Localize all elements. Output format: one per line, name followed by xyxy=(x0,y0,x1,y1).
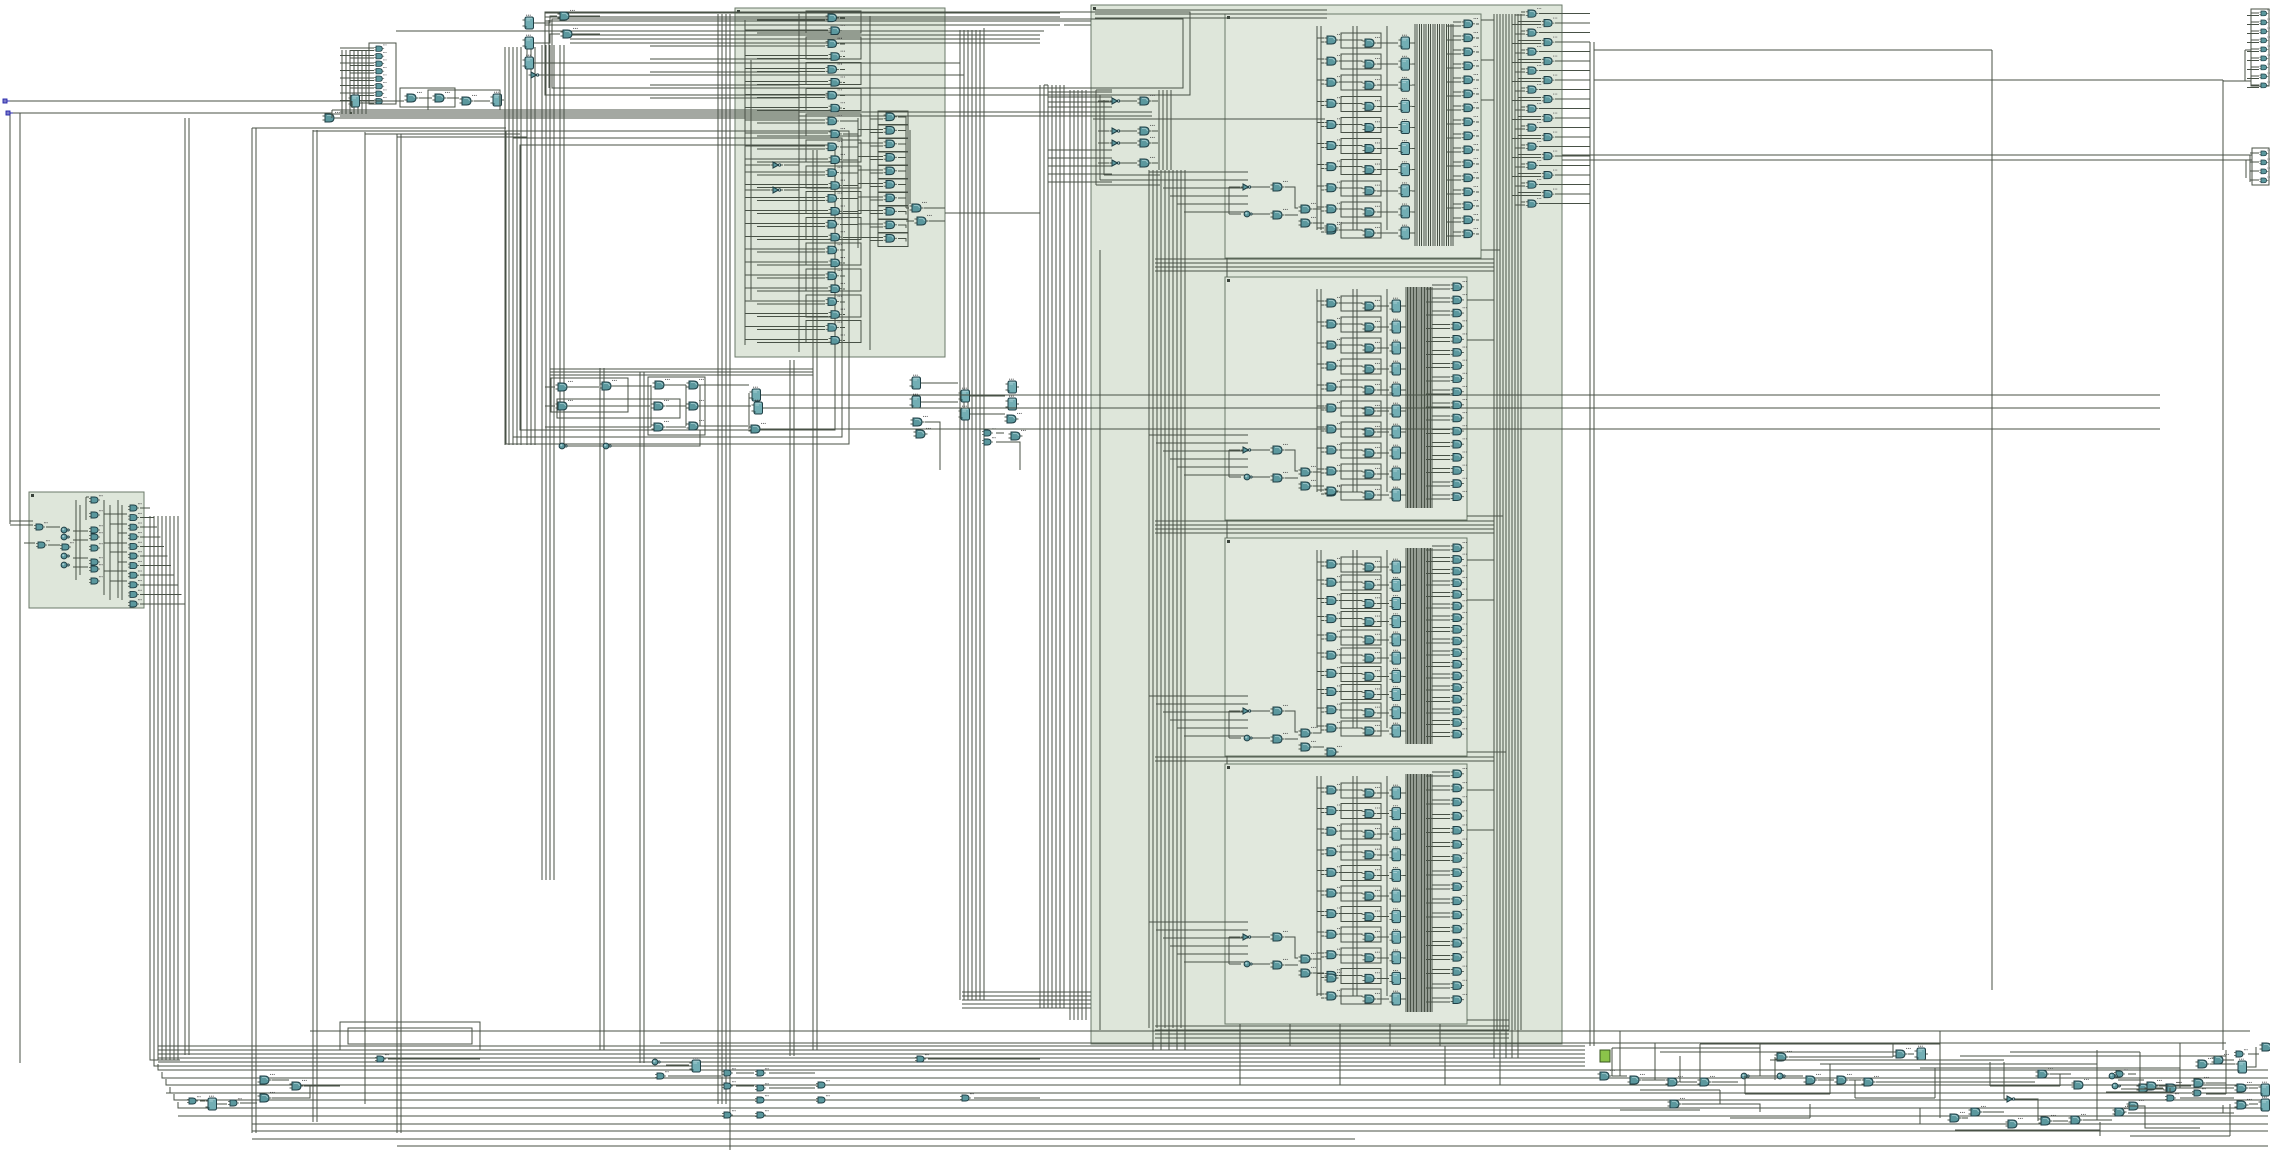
flipflop FM1 xyxy=(910,375,924,389)
wire blk2 cfeed 5 xyxy=(1426,351,1465,355)
wire blk2 cfeed 15 xyxy=(1426,482,1465,486)
wire stubs under core mid xyxy=(1240,1024,1440,1046)
flipflop FM4 xyxy=(959,406,973,420)
wire blk4 cfeed 12 xyxy=(1426,941,1465,945)
wire bl links xyxy=(200,1059,1040,1104)
or gate B1C13 xyxy=(1462,200,1478,210)
wire net v252 xyxy=(252,128,256,1133)
wire p3 out 5 xyxy=(140,555,168,557)
and gate BR8 xyxy=(1835,1074,1852,1084)
wire net core out h213 xyxy=(945,212,1040,214)
wire blk4 cfeed 1 xyxy=(1426,786,1465,790)
and gate FR4 xyxy=(2259,46,2270,52)
wire dec in 24 xyxy=(745,327,845,330)
wire fr stub 6 xyxy=(2247,67,2259,70)
and gate B2A5 xyxy=(1325,402,1342,412)
wire net strip top frame xyxy=(310,1030,2250,1032)
wire bundle blk3 matrix xyxy=(1406,548,1432,744)
wire blk3 cfeed 4 xyxy=(1426,593,1465,597)
wire dor link 1 xyxy=(858,125,908,139)
wire blk2 rowbox 4 xyxy=(1341,380,1381,395)
wire loop mid rect 1 xyxy=(506,131,849,444)
wire blk1 rowbox 0 xyxy=(1341,33,1381,48)
flipflop B3F6 xyxy=(1390,668,1404,682)
and gate B2B5 xyxy=(1363,405,1380,415)
inverter B3L0 xyxy=(1241,708,1254,714)
wire rout a feed 3 xyxy=(1515,69,1590,72)
wire dec box 24 xyxy=(806,321,861,343)
wire fr stub 2 xyxy=(2247,31,2259,34)
and gate BL1 xyxy=(187,1096,201,1104)
or gate DOR8 xyxy=(884,219,900,229)
and gate B1A3 xyxy=(1325,97,1342,107)
and gate B3B3 xyxy=(1363,616,1380,626)
wire bus under blk1 xyxy=(1155,259,1494,271)
wire net top joins2 xyxy=(580,12,1091,85)
wire p3 out 0 xyxy=(140,507,150,509)
wire dec in 5 xyxy=(745,82,845,85)
and gate B2B9 xyxy=(1363,489,1380,499)
wire blk4 rowbox 4 xyxy=(1341,865,1381,880)
and gate B3B1 xyxy=(1363,579,1380,589)
wire mid col links xyxy=(923,383,1020,470)
wire loop mid cluster box1 xyxy=(551,378,628,412)
and gate B4L1 xyxy=(1271,931,1288,941)
or gate B4C3 xyxy=(1451,810,1467,820)
round buffer MB1 xyxy=(559,443,568,449)
or gate DOR7 xyxy=(884,205,900,215)
inverter B4L0 xyxy=(1241,934,1254,940)
and gate B2B7 xyxy=(1363,447,1380,457)
and gate DOUT1 xyxy=(910,202,927,212)
wire blk1 rowbox 2 xyxy=(1341,75,1381,90)
wire rout b feed 5 xyxy=(1512,117,1590,120)
round buffer S7 xyxy=(61,562,70,568)
wire bus top inputs xyxy=(332,110,799,118)
wire blk3 rowbox 4 xyxy=(1341,630,1381,645)
wire dor link 5 xyxy=(858,179,908,193)
and gate DEC0 xyxy=(826,12,842,22)
wire dec box 16 xyxy=(806,217,861,239)
wire net mid h370 xyxy=(550,369,813,375)
wire corner left bundle 6 xyxy=(170,1087,200,1093)
wire blk2 cfeed 6 xyxy=(1426,364,1465,368)
and gate B1L2 xyxy=(1299,203,1316,213)
and gate DEC17 xyxy=(829,231,845,241)
wire fr stub 7 xyxy=(2247,76,2259,79)
and gate SM0 xyxy=(89,495,103,503)
and gate B4A6 xyxy=(1325,907,1342,917)
and gate B3B6 xyxy=(1363,670,1380,680)
and gate B1B0 xyxy=(1363,37,1380,47)
inverter CIV3 xyxy=(1110,160,1123,166)
and gate B2A9 xyxy=(1325,486,1342,496)
and gate MC6 xyxy=(652,400,669,410)
wire blk1 cfeed 6 xyxy=(1447,106,1479,110)
and gate FR2 xyxy=(2259,28,2270,34)
or gate B4C1 xyxy=(1451,782,1467,792)
sub-module panel BLK1 xyxy=(1225,14,1481,258)
wire dec in 11 xyxy=(745,159,858,162)
wire rout b feed 2 xyxy=(1512,60,1590,63)
wire blk1 feeders xyxy=(1317,26,1387,230)
wire rout b feed 6 xyxy=(1512,136,1590,139)
wire rout a feed 4 xyxy=(1515,88,1590,91)
flipflop B3F1 xyxy=(1390,577,1404,591)
wire dec in 3 xyxy=(745,56,845,59)
and gate B3A9 xyxy=(1325,722,1342,732)
and gate B3A8 xyxy=(1325,704,1342,714)
and gate DEC20 xyxy=(826,270,842,280)
and gate BR7 xyxy=(1804,1074,1821,1084)
wire dec box 4 xyxy=(806,63,861,85)
wire blk2 row 6 xyxy=(1317,427,1406,432)
wire blk1 cfeed 1 xyxy=(1447,36,1479,40)
or gate ROUTa1 xyxy=(1526,27,1542,36)
and gate BRT6 xyxy=(2165,1093,2179,1101)
and gate B4B8 xyxy=(1363,952,1380,962)
wire blk3 cfeed 15 xyxy=(1426,721,1465,725)
wire dec in 21 xyxy=(745,288,845,291)
and gate B3A7 xyxy=(1325,685,1342,695)
inverter B2L0 xyxy=(1241,447,1254,453)
wire blk3 row 6 xyxy=(1317,671,1406,676)
wire blk1 row 2 xyxy=(1317,80,1415,85)
flipflop B4F1 xyxy=(1390,805,1404,819)
wire blk3 row 2 xyxy=(1317,598,1406,603)
wire loop mid cluster box3 xyxy=(557,399,680,418)
inverter CIV0 xyxy=(1110,98,1123,104)
and gate BR28 xyxy=(2212,1054,2229,1064)
round buffer B3L3 xyxy=(1244,735,1253,741)
or gate B1C12 xyxy=(1462,186,1478,196)
and gate DEC10 xyxy=(826,141,842,151)
wire blk2 row 8 xyxy=(1317,469,1406,474)
wire p3 feed column xyxy=(86,497,127,581)
or gate SO8 xyxy=(128,580,142,588)
flipflop BLF1 xyxy=(206,1096,220,1110)
round buffer B1L3 xyxy=(1244,211,1253,217)
and gate SM7 xyxy=(89,576,103,584)
wire dec in 0 xyxy=(745,17,845,20)
and gate BR9 xyxy=(1862,1076,1879,1086)
or gate B3C15 xyxy=(1451,717,1467,727)
wire blk4 rowbox 5 xyxy=(1341,886,1381,901)
and gate BR15 xyxy=(1969,1106,1986,1116)
wire dec box 10 xyxy=(806,140,861,162)
wire box around input gate column xyxy=(369,43,396,104)
or gate ROUTa8 xyxy=(1526,160,1542,169)
and gate GM2 xyxy=(914,428,931,438)
wire corner left bundle 7 xyxy=(174,1094,204,1100)
and gate SM4 xyxy=(89,543,103,551)
flipflop B4F3 xyxy=(1390,846,1404,860)
wire blk4 row 2 xyxy=(1317,829,1406,834)
wire blk3 rowbox 0 xyxy=(1341,557,1381,572)
inverter B1L0 xyxy=(1241,184,1254,190)
flipflop MF1 xyxy=(750,387,764,401)
wire blk1 cfeed 7 xyxy=(1447,120,1479,124)
and gate B2L6 xyxy=(1325,485,1342,495)
wire net v313 xyxy=(313,130,317,1122)
flipflop B3F0 xyxy=(1390,559,1404,573)
or gate B2C15 xyxy=(1451,478,1467,488)
wire dec in 19 xyxy=(745,262,845,265)
wire blk3 rowbox 2 xyxy=(1341,593,1381,608)
or gate B2C3 xyxy=(1451,320,1467,330)
wire bus bottom spread xyxy=(166,1070,2268,1093)
or gate B1C7 xyxy=(1462,116,1478,126)
wire net left tall xyxy=(185,118,189,1055)
wire blk1 cfeed 5 xyxy=(1447,92,1479,96)
and gate B4B0 xyxy=(1363,787,1380,797)
and gate FR8 xyxy=(2259,82,2270,88)
and gate BL8 xyxy=(655,1071,669,1079)
flipflop MF2 xyxy=(752,400,766,414)
and gate FR3 xyxy=(2259,37,2270,43)
wire dor link 2 xyxy=(858,138,908,152)
wire p3 out 10 xyxy=(140,603,185,605)
and gate DEC21 xyxy=(829,283,845,293)
and gate BR29 xyxy=(2127,1100,2144,1110)
and gate B2A3 xyxy=(1325,360,1342,370)
wire blk3 rowbox 3 xyxy=(1341,612,1381,627)
wire inputs GIN6 xyxy=(340,93,374,96)
or gate B2C11 xyxy=(1451,425,1467,435)
and gate B1B3 xyxy=(1363,100,1380,110)
and gate GIN1 xyxy=(374,52,386,59)
and gate B2B6 xyxy=(1363,426,1380,436)
wire blk1 cfeed 15 xyxy=(1447,232,1479,236)
wire net v640 xyxy=(640,372,644,1063)
wire dec box 22 xyxy=(806,295,861,317)
wire civ link 1 xyxy=(1098,130,1158,132)
wire net vbus left outer xyxy=(9,113,11,524)
wire blk3 cfeed 10 xyxy=(1426,662,1465,666)
wire rout b feed 1 xyxy=(1512,41,1590,44)
wire blk4 rowbox 7 xyxy=(1341,927,1381,942)
wire blk3 rowbox 9 xyxy=(1341,721,1381,736)
and gate SM6 xyxy=(89,564,103,572)
or gate B2C16 xyxy=(1451,491,1467,501)
flipflop B1F9 xyxy=(1399,225,1413,239)
round buffer B2L3 xyxy=(1244,474,1253,480)
wire dec in 22 xyxy=(745,301,845,304)
and gate BRT4 xyxy=(2137,1082,2154,1092)
wire blk1 cfeed 8 xyxy=(1447,134,1479,138)
wire p3 input stubs xyxy=(10,521,35,543)
round buffer S3 xyxy=(61,527,70,533)
wire dec in 6 xyxy=(745,94,845,97)
wire rout a feed 1 xyxy=(1515,31,1590,34)
wire blk4 cfeed 2 xyxy=(1426,800,1465,804)
and gate DEC3 xyxy=(829,51,845,61)
or gate B3C14 xyxy=(1451,705,1467,715)
and gate BL17 xyxy=(816,1095,830,1103)
wire blk2 cfeed 3 xyxy=(1426,324,1465,328)
and gate GA2 xyxy=(433,92,450,102)
wire bus feed BLK1 xyxy=(1149,172,1248,212)
wire blk2 row 2 xyxy=(1317,343,1406,348)
wire blk4 rowbox 1 xyxy=(1341,804,1381,819)
or gate DOR1 xyxy=(884,124,900,134)
or gate ROUTb1 xyxy=(1542,37,1558,46)
and gate BR25 xyxy=(2165,1082,2182,1092)
wire blk1 rowbox 4 xyxy=(1341,117,1381,132)
or gate B3C7 xyxy=(1451,623,1467,633)
or gate DOR3 xyxy=(884,151,900,161)
and gate DEC7 xyxy=(829,102,845,112)
or gate B2C6 xyxy=(1451,360,1467,370)
wire stubs under blk4 right xyxy=(1494,1030,1518,1058)
round buffer BL7 xyxy=(652,1059,661,1065)
and gate BR12 xyxy=(1668,1098,1685,1108)
wire blk3 cfeed 3 xyxy=(1426,581,1465,585)
and gate B1L6 xyxy=(1325,222,1342,232)
and gate S1 xyxy=(34,522,48,530)
wire blk4 cfeed 14 xyxy=(1426,970,1465,974)
flipflop B2F1 xyxy=(1390,319,1404,333)
round buffer BR5 xyxy=(1741,1073,1750,1079)
and gate BL3 xyxy=(258,1074,275,1084)
and gate B4A10 xyxy=(1325,990,1342,1000)
wire inputs GIN5 xyxy=(340,86,374,89)
and gate DEC23 xyxy=(829,309,845,319)
wire blk4 row 1 xyxy=(1317,809,1406,814)
and gate B1B9 xyxy=(1363,227,1380,237)
wire dor link 3 xyxy=(858,152,908,166)
and gate SM3 xyxy=(89,532,103,540)
or gate B3C5 xyxy=(1451,600,1467,610)
wire blk1 row 8 xyxy=(1317,207,1415,212)
wire blk3 cfeed 7 xyxy=(1426,628,1465,632)
and gate DEC1 xyxy=(829,25,845,35)
buffer gate B_in xyxy=(323,112,340,122)
and gate FR7 xyxy=(2259,73,2270,79)
or gate B2C0 xyxy=(1451,281,1467,291)
wire blk3 cfeed 13 xyxy=(1426,697,1465,701)
wire stubs strip risers xyxy=(1240,1046,1500,1085)
or gate ROUTa6 xyxy=(1526,122,1542,131)
wire blk4 rowbox 6 xyxy=(1341,907,1381,922)
wire dor link 4 xyxy=(858,165,908,179)
or gate DOR4 xyxy=(884,165,900,175)
and gate BR20 xyxy=(2036,1068,2053,1078)
wire blk3 cfeed 5 xyxy=(1426,604,1465,608)
wire inputs GIN0 xyxy=(340,48,374,51)
wire blk3 cfeed 9 xyxy=(1426,651,1465,655)
wire blk4 cfeed 8 xyxy=(1426,885,1465,889)
and gate B2A6 xyxy=(1325,423,1342,433)
wire blk4 row 8 xyxy=(1317,953,1406,958)
wire dec in 4 xyxy=(745,69,845,72)
wire dor link 9 xyxy=(858,233,908,247)
flipflop B4F2 xyxy=(1390,826,1404,840)
and gate BR3 xyxy=(1666,1076,1683,1086)
and gate BR16 xyxy=(2006,1118,2023,1128)
wire loop mid cluster box2 xyxy=(648,377,705,435)
and gate B4A7 xyxy=(1325,928,1342,938)
flipflop B1F4 xyxy=(1399,119,1413,133)
or gate B4C12 xyxy=(1451,937,1467,947)
or gate B3C6 xyxy=(1451,612,1467,622)
and gate B1B5 xyxy=(1363,142,1380,152)
or gate ROUTb4 xyxy=(1542,94,1558,103)
or gate B2C8 xyxy=(1451,386,1467,396)
and gate GIN0 xyxy=(374,44,386,51)
or gate ROUTa2 xyxy=(1526,46,1542,55)
and gate MC4 xyxy=(653,379,670,389)
wire blk2 cfeed 13 xyxy=(1426,456,1465,460)
wire stubs under core left xyxy=(1153,1028,1185,1050)
wire blk2 row 4 xyxy=(1317,385,1406,390)
wire net vtops xyxy=(20,113,527,137)
wire blk4 cfeed 4 xyxy=(1426,828,1465,832)
and gate BR11 xyxy=(1894,1048,1911,1058)
flipflop B2F8 xyxy=(1390,466,1404,480)
flipflop B3F9 xyxy=(1390,723,1404,737)
and gate DEC2 xyxy=(826,38,842,48)
wire fr stub 1 xyxy=(2247,22,2259,25)
wire blk1 rowbox 9 xyxy=(1341,223,1381,238)
wire dec box 2 xyxy=(806,37,861,59)
or gate B3C9 xyxy=(1451,647,1467,657)
flipflop FM2 xyxy=(910,394,924,408)
and gate B4A2 xyxy=(1325,825,1342,835)
wire net right long h155 xyxy=(1562,154,2250,156)
and gate FR6 xyxy=(2259,64,2270,70)
flipflop B3F4 xyxy=(1390,632,1404,646)
flipflop BRF5 xyxy=(1915,1046,1929,1060)
round buffer BR22 xyxy=(2109,1073,2118,1079)
wire corner left bundle 4 xyxy=(162,1072,192,1078)
input pin D_in0 xyxy=(3,99,10,103)
and gate FR23 xyxy=(2259,177,2270,183)
wire blk4 row 7 xyxy=(1317,932,1406,937)
wire mid cluster links xyxy=(545,385,2160,446)
wire net top h31 xyxy=(396,30,1044,32)
and gate BR21 xyxy=(2072,1079,2089,1089)
wire dec in 14 xyxy=(745,198,858,201)
wire blk3 cfeed 6 xyxy=(1426,616,1465,620)
or gate B1C4 xyxy=(1462,74,1478,84)
wire blk1 cfeed 9 xyxy=(1447,148,1479,152)
inverter DINV1 xyxy=(771,162,784,168)
wire rout b feed 0 xyxy=(1512,22,1590,25)
and gate B1A1 xyxy=(1325,55,1342,65)
and gate B1L5 xyxy=(1299,217,1316,227)
and gate BL15 xyxy=(755,1110,769,1118)
wire p3 out 7 xyxy=(140,574,175,576)
wire net v365 xyxy=(364,132,366,1104)
and gate BR24 xyxy=(2145,1080,2162,1090)
flipflop B1F3 xyxy=(1399,98,1413,112)
and gate B1A0 xyxy=(1325,34,1342,44)
or gate B2C14 xyxy=(1451,465,1467,475)
flipflop B4F10 xyxy=(1390,991,1404,1005)
and gate DEC13 xyxy=(829,180,845,190)
wire blk2 cfeed 8 xyxy=(1426,390,1465,394)
round buffer S6 xyxy=(61,553,70,559)
or gate B4C14 xyxy=(1451,966,1467,976)
or gate B1C8 xyxy=(1462,130,1478,140)
or gate B4C10 xyxy=(1451,909,1467,919)
and gate DEC19 xyxy=(829,257,845,267)
and gate B1B4 xyxy=(1363,121,1380,131)
or gate ROUTb6 xyxy=(1542,132,1558,141)
wire row links A xyxy=(363,98,490,101)
module panel U_CORE (large right) xyxy=(1091,5,1562,1044)
